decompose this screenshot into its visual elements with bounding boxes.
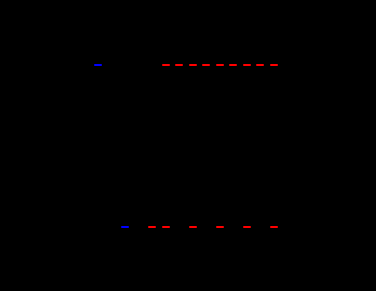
bottom row: blue dash segment bbox=[121, 226, 129, 228]
top row: blue dash segment bbox=[94, 64, 103, 66]
bottom row: red dashes bbox=[148, 226, 156, 228]
top row: red dashed line, 9 dashes, period 13.56px bbox=[162, 64, 170, 66]
